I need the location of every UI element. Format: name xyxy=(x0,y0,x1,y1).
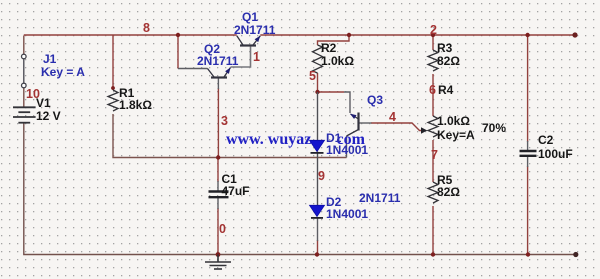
svg-text:Q3: Q3 xyxy=(367,93,383,107)
svg-text:R3: R3 xyxy=(437,41,453,55)
svg-text:J1: J1 xyxy=(43,52,57,66)
svg-text:2N1711: 2N1711 xyxy=(197,54,239,68)
svg-text:2N1711: 2N1711 xyxy=(359,191,401,205)
svg-text:4: 4 xyxy=(389,110,396,124)
svg-text:1.8kΩ: 1.8kΩ xyxy=(119,98,152,112)
svg-text:8: 8 xyxy=(143,21,150,35)
svg-text:5: 5 xyxy=(309,69,316,83)
svg-text:47uF: 47uF xyxy=(222,184,250,198)
svg-text:1.0kΩ: 1.0kΩ xyxy=(321,54,354,68)
svg-text:3: 3 xyxy=(221,114,228,128)
svg-text:1N4001: 1N4001 xyxy=(326,207,368,221)
svg-text:100uF: 100uF xyxy=(538,147,573,161)
svg-text:82Ω: 82Ω xyxy=(437,54,460,68)
svg-text:9: 9 xyxy=(318,169,325,183)
svg-text:Key = A: Key = A xyxy=(41,65,85,79)
svg-text:Q1: Q1 xyxy=(242,10,258,24)
svg-text:R2: R2 xyxy=(321,41,337,55)
svg-text:Key=A: Key=A xyxy=(437,128,475,142)
svg-text:7: 7 xyxy=(431,148,438,162)
svg-text:1: 1 xyxy=(253,50,260,64)
svg-text:1.0kΩ: 1.0kΩ xyxy=(437,114,470,128)
svg-text:www. wuyaz: www. wuyaz xyxy=(226,131,311,148)
svg-text:82Ω: 82Ω xyxy=(437,185,460,199)
svg-text:1N4001: 1N4001 xyxy=(326,143,368,157)
svg-text:0: 0 xyxy=(219,222,226,236)
svg-text:70%: 70% xyxy=(482,121,506,135)
svg-text:12 V: 12 V xyxy=(36,109,61,123)
svg-text:6: 6 xyxy=(429,83,436,97)
svg-text:2: 2 xyxy=(430,23,437,37)
svg-text:C2: C2 xyxy=(538,133,554,147)
svg-text:2N1711: 2N1711 xyxy=(234,23,276,37)
svg-text:10: 10 xyxy=(26,87,40,101)
svg-text:R4: R4 xyxy=(438,83,454,97)
